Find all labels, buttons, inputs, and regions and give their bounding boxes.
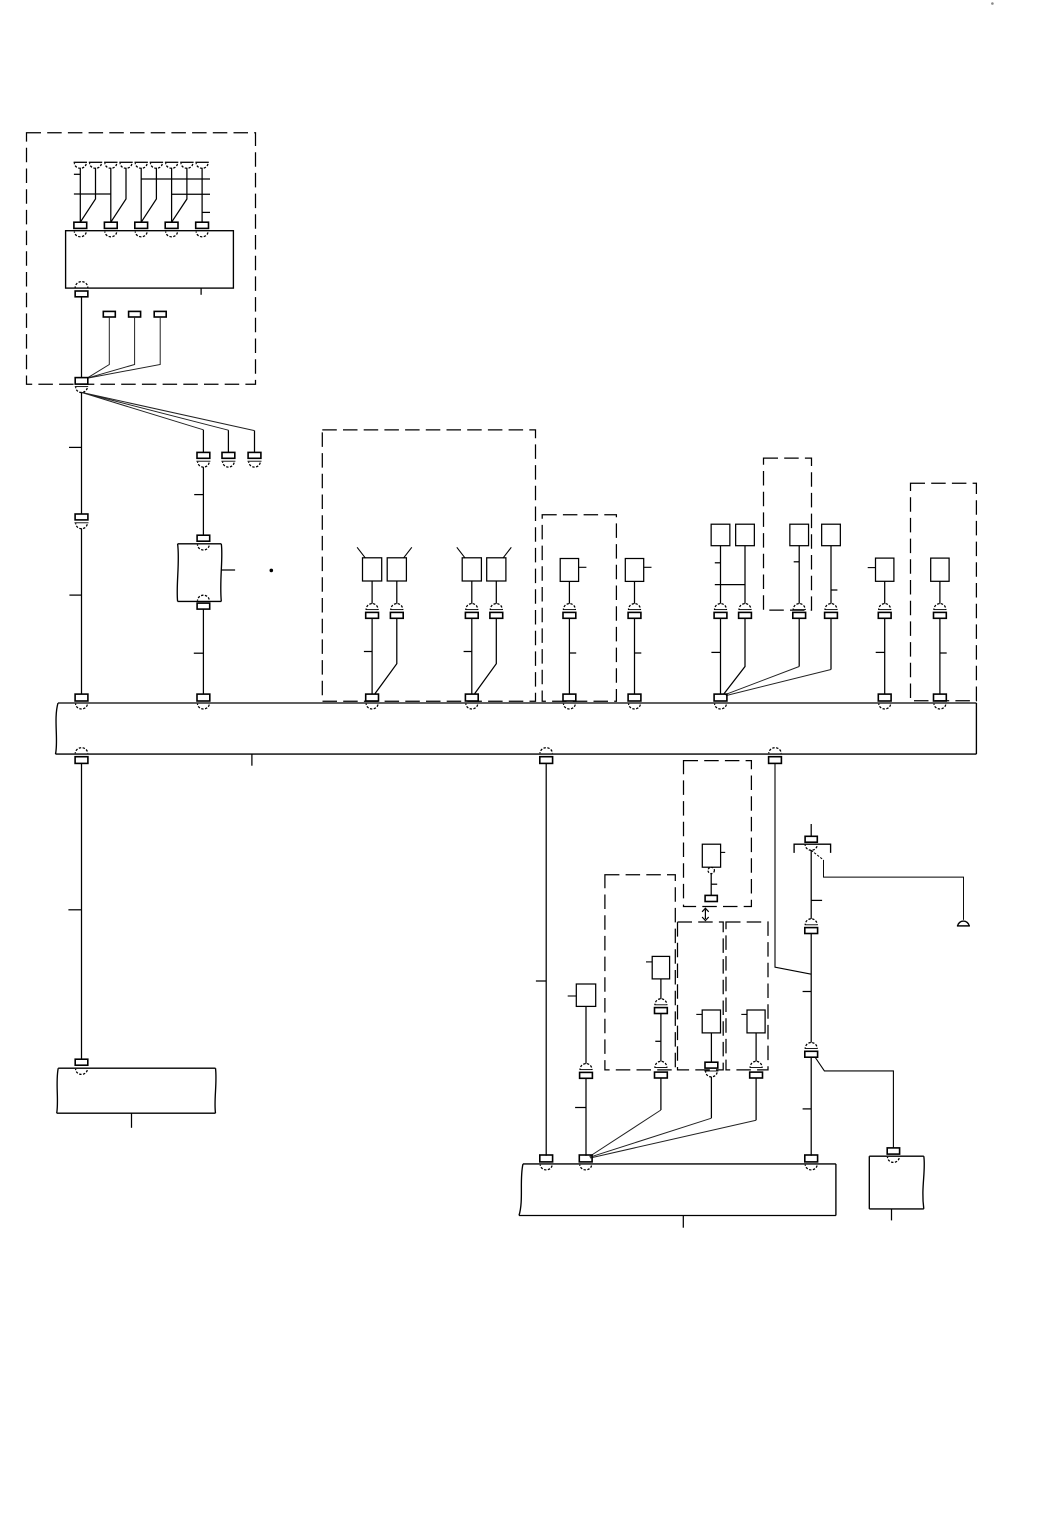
aux terminal A3 xyxy=(154,311,166,317)
trunk H2 bottom stub xyxy=(682,1216,684,1228)
unit V9 connector xyxy=(750,1061,763,1078)
unit U5 tick xyxy=(876,651,885,653)
harness trunk H1 xyxy=(56,703,977,754)
pin connector P1 xyxy=(74,222,87,228)
trunk H1 bottom connector 3 xyxy=(769,748,782,764)
accessory box stub xyxy=(891,1209,893,1221)
unit V7 square xyxy=(652,956,669,979)
tick on R2 xyxy=(811,899,822,901)
cap terminal T9 xyxy=(195,162,208,168)
wire R2 lower xyxy=(810,1057,812,1156)
unit V7 wire to junction xyxy=(590,1078,661,1157)
accessory box (torn edge) xyxy=(869,1156,924,1209)
wire W2 upper xyxy=(202,467,204,535)
unit V7 wire xyxy=(660,979,662,999)
wire QD to junction xyxy=(726,618,831,695)
wire QC xyxy=(798,546,800,604)
unit U3 connector xyxy=(563,604,576,619)
branch to accessory box xyxy=(815,1058,893,1148)
connector into ground bar xyxy=(75,1059,88,1065)
ground bar stub xyxy=(131,1113,133,1128)
cap terminal T7 xyxy=(165,162,178,168)
unit U5 wire xyxy=(884,581,886,603)
unit L wire lower xyxy=(585,1078,587,1156)
head unit bottom stub xyxy=(200,288,202,295)
dashed box B6 xyxy=(684,761,752,907)
arc inside accessory box xyxy=(888,1157,900,1162)
lead from T5 xyxy=(140,168,142,222)
speaker SP2b xyxy=(487,547,512,581)
dashed box B3 xyxy=(542,515,616,702)
antenna feed line xyxy=(824,860,964,920)
stub left of T1 xyxy=(74,173,80,175)
bus line upper right xyxy=(141,178,210,180)
tick on QA wire lower xyxy=(711,651,720,653)
bulb unit stub xyxy=(721,851,726,853)
unit U6 square xyxy=(931,558,949,581)
inline connector on W1 xyxy=(75,514,89,529)
unit U6 wire to trunk xyxy=(939,618,941,694)
tick on W2 xyxy=(194,494,203,496)
junction connector J1 xyxy=(75,378,88,393)
unit L square xyxy=(576,984,595,1006)
dashed box B5 xyxy=(911,483,977,700)
cap terminal T3 xyxy=(104,162,117,168)
unit L connector xyxy=(580,1064,593,1079)
connector on SP2b wire xyxy=(490,604,503,619)
speaker SP1a xyxy=(357,547,382,581)
dashed box B4 xyxy=(764,458,812,610)
bulb circle xyxy=(708,867,714,873)
lead from T7 xyxy=(171,168,173,222)
trunk H1 bottom stub xyxy=(251,754,253,766)
connector QC xyxy=(793,604,806,619)
wire from head unit down xyxy=(81,297,83,378)
bulb wire xyxy=(710,874,712,896)
tick on W1 lower xyxy=(69,594,81,596)
cap terminal T5 xyxy=(135,162,148,168)
stub connector S3 (capped) xyxy=(248,452,262,467)
stub right of T9 xyxy=(202,211,210,213)
unit U5 connector xyxy=(878,604,891,619)
lead from T6 with bend xyxy=(141,168,156,222)
unit U6 wire xyxy=(939,581,941,603)
wire R2 upper xyxy=(810,850,812,919)
dashed box B1 (head unit group) xyxy=(27,133,256,384)
aux lead 3 xyxy=(87,317,160,378)
unit U4 square xyxy=(625,559,643,582)
connector on SP2a wire xyxy=(465,604,478,619)
unit V7 connector 2 xyxy=(654,1061,667,1078)
connector into bundle box xyxy=(197,535,210,541)
unit V9 wire to junction xyxy=(590,1078,756,1158)
trunk H1 bottom connector 2 xyxy=(540,748,553,764)
unit V7 stub xyxy=(646,961,652,963)
antenna base dome xyxy=(957,921,970,926)
wire QD xyxy=(830,546,832,604)
unit U4 wire xyxy=(634,581,636,603)
connector QB xyxy=(739,604,752,619)
speaker SP2a xyxy=(457,547,482,581)
unit U3 stub xyxy=(579,566,587,568)
wire SP1a to trunk xyxy=(371,618,373,694)
tick on QC wire xyxy=(794,561,800,563)
trunk H1 bottom connector 1 xyxy=(75,748,88,764)
left main wire W1 upper xyxy=(81,392,83,514)
socket arc under P1 xyxy=(74,232,86,237)
stub connector S1 xyxy=(196,452,210,467)
unit V9 stub xyxy=(741,1013,747,1015)
socket arc under P5 xyxy=(196,232,208,237)
wire from SP2a xyxy=(471,581,473,604)
unit V8 square xyxy=(702,1010,720,1033)
tick on V7 wire xyxy=(655,1040,661,1042)
unit U5 square xyxy=(876,558,894,581)
lead from T9 xyxy=(201,168,203,222)
wire from SP1a xyxy=(371,581,373,604)
unit U5 wire to trunk xyxy=(884,618,886,694)
wire M1 to lower trunk xyxy=(545,763,547,1155)
socket arc under P4 xyxy=(166,232,178,237)
bulb end connector xyxy=(705,895,717,901)
speaker SP1b xyxy=(387,547,412,581)
unit V8 wire xyxy=(710,1033,712,1062)
wire from SP2b xyxy=(495,581,497,604)
antenna feed (dashed segment) xyxy=(811,850,823,860)
unit U3 tick xyxy=(569,652,576,654)
tick on unit L wire xyxy=(575,1107,586,1109)
dashed box B2 (speaker group) xyxy=(322,430,535,701)
lead from T8 with bend xyxy=(172,168,187,222)
antenna connector arc xyxy=(805,845,817,851)
head unit box U1 xyxy=(66,231,234,288)
harness trunk H2 xyxy=(519,1164,836,1216)
trunk H1 top connector 5 xyxy=(563,694,576,709)
dashed box B9 xyxy=(726,922,768,1070)
trunk H1 top connector 3 xyxy=(366,694,379,709)
connector on SP1b wire xyxy=(390,604,403,619)
aux lead 2 xyxy=(87,317,135,378)
ground bar (torn edges) xyxy=(57,1068,216,1113)
wire SP2b to junction xyxy=(475,618,497,694)
tick on QD wire xyxy=(831,589,837,591)
bulb unit square xyxy=(702,844,720,867)
pin connector P5 xyxy=(196,222,209,228)
trunk H1 top connector 9 xyxy=(934,694,947,709)
unit U4 tick xyxy=(635,652,642,654)
connector below bundle box xyxy=(197,603,210,609)
tick on G1 xyxy=(68,909,81,911)
trunk H1 top connector 7 xyxy=(714,694,727,709)
arc inside ground bar xyxy=(76,1069,88,1074)
socket arc under P2 xyxy=(105,232,117,237)
lead from T4 with bend xyxy=(111,168,126,222)
dot marker xyxy=(270,569,274,573)
double arrow xyxy=(702,908,709,920)
dashed box B8 xyxy=(678,922,724,1070)
wire W2 lower xyxy=(202,609,204,694)
aux lead 1 xyxy=(87,317,109,378)
tick on R2 lower xyxy=(803,1108,812,1110)
tick on R2 middle xyxy=(803,991,812,993)
square QA xyxy=(711,524,730,546)
unit V7 connector 1 xyxy=(654,999,667,1014)
cap terminal T2 xyxy=(89,162,102,168)
ground wire G1 xyxy=(81,763,83,1059)
aux terminal A1 xyxy=(103,311,115,317)
bus line left xyxy=(74,193,111,195)
pin connector P2 xyxy=(104,222,117,228)
unit U4 wire to trunk xyxy=(634,618,636,694)
unit U6 connector xyxy=(933,604,946,619)
wire QB xyxy=(744,546,746,604)
unit V8 wire to junction xyxy=(590,1077,712,1157)
bundle box right stub xyxy=(221,569,235,571)
left main wire W1 lower xyxy=(81,529,83,695)
antenna connector rect xyxy=(805,836,817,842)
pin connector P3 xyxy=(135,222,148,228)
cap terminal T6 xyxy=(150,162,163,168)
cap terminal T1 xyxy=(74,162,87,168)
unit L stub xyxy=(568,995,577,997)
tick on bulb wire xyxy=(711,883,717,885)
unit U3 square xyxy=(560,559,578,582)
unit V8 stub xyxy=(696,1013,702,1015)
faint dot top right xyxy=(991,2,994,5)
unit U3 wire xyxy=(568,581,570,603)
unit L wire xyxy=(585,1006,587,1063)
wire R1 xyxy=(775,763,811,974)
connector on R2 lower xyxy=(805,1043,818,1058)
unit U3 wire to trunk xyxy=(568,618,570,694)
unit V7 wire mid xyxy=(660,1014,662,1062)
lead from T3 xyxy=(110,168,112,222)
bundle box (torn edges) xyxy=(177,544,222,602)
trunk H1 top connector 8 xyxy=(878,694,891,709)
connector QA xyxy=(714,604,727,619)
wire QA to trunk xyxy=(720,618,722,694)
wire SP2a to trunk xyxy=(471,618,473,694)
wire SP1b to junction xyxy=(375,618,397,694)
stub connector S2 (capped) xyxy=(221,452,235,467)
wire QA xyxy=(720,546,722,604)
trunk H1 top connector 6 xyxy=(628,694,641,709)
trunk H2 top connector 2 xyxy=(579,1155,592,1170)
bus line right xyxy=(172,193,210,195)
tick on M1 xyxy=(536,980,546,982)
unit U4 connector xyxy=(628,604,641,619)
unit V8 connector xyxy=(704,1062,718,1077)
square QD xyxy=(822,524,841,546)
connector QD xyxy=(825,604,838,619)
unit V9 wire xyxy=(755,1033,757,1061)
tick on QA wire xyxy=(715,562,721,564)
lead from T2 with bend xyxy=(80,168,95,222)
wire QC to junction xyxy=(725,618,799,694)
cap terminal T4 xyxy=(119,162,132,168)
wire QB to junction xyxy=(724,618,745,694)
crossbar QA-QB xyxy=(715,584,745,586)
fan wire to stub S1 xyxy=(82,392,204,452)
square QB xyxy=(736,524,755,546)
arc inside bundle box top xyxy=(198,545,210,550)
antenna lead stub xyxy=(810,824,812,836)
trunk H2 top connector 3 xyxy=(805,1155,818,1170)
head unit bottom connector xyxy=(75,282,88,297)
wire from SP1b xyxy=(396,581,398,604)
arc inside bundle box bottom xyxy=(198,595,210,600)
tick on SP1a wire xyxy=(364,651,372,653)
socket arc under P3 xyxy=(135,232,147,237)
connector on R2 xyxy=(805,919,818,934)
unit V9 square xyxy=(747,1010,765,1033)
connector on SP1a wire xyxy=(366,604,379,619)
fan wire to stub S3 xyxy=(82,392,255,452)
wire R2 middle xyxy=(810,934,812,1043)
cap terminal T8 xyxy=(180,162,193,168)
dashed box B7 xyxy=(605,875,675,1070)
unit U4 stub xyxy=(644,566,652,568)
trunk H1 top connector 1 xyxy=(75,694,88,709)
trunk H1 top connector 4 xyxy=(465,694,478,709)
tick on SP2a wire xyxy=(464,651,472,653)
unit U6 tick xyxy=(940,652,947,654)
aux terminal A2 xyxy=(129,311,141,317)
trunk H1 top connector 2 xyxy=(197,694,210,709)
antenna connector bracket xyxy=(794,844,831,853)
trunk H2 top connector 1 xyxy=(540,1155,553,1170)
connector into accessory box xyxy=(887,1148,899,1154)
tick on W1 xyxy=(69,446,82,448)
lead from T1 xyxy=(79,168,81,222)
unit U5 stub xyxy=(868,567,876,569)
fan wire to stub S2 xyxy=(82,392,229,452)
tick on W2 lower xyxy=(194,652,204,654)
pin connector P4 xyxy=(165,222,178,228)
square QC xyxy=(790,524,809,546)
